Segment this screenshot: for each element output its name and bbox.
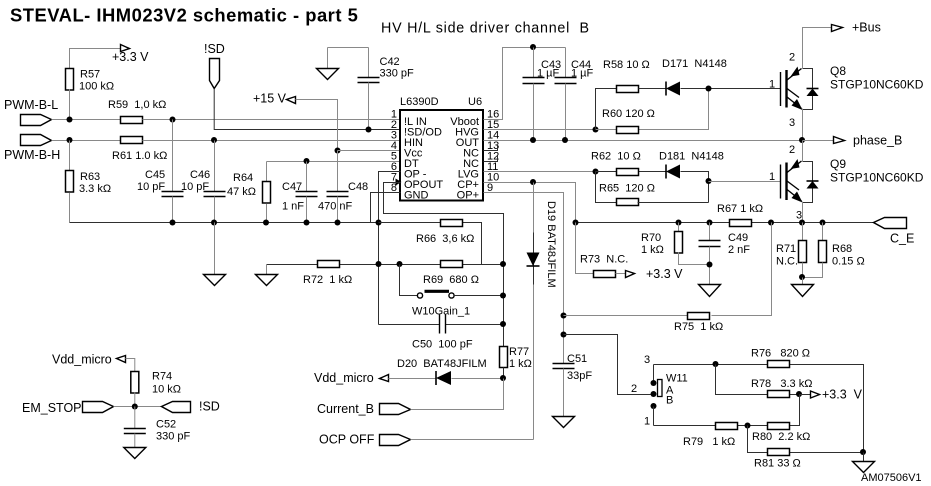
node rail C45 xyxy=(170,220,176,226)
wire R76 line xyxy=(654,365,864,453)
power +15V xyxy=(253,92,338,151)
node R76 R78 branch xyxy=(713,361,719,367)
svg-text:2 nF: 2 nF xyxy=(728,244,750,256)
wire Vcc pin4 xyxy=(338,150,401,152)
node OUT C43 xyxy=(530,137,536,143)
wire DT pin5 xyxy=(267,161,401,163)
node phase_B junction xyxy=(799,137,805,143)
svg-text:470 nF: 470 nF xyxy=(318,201,353,213)
resistor R70 xyxy=(641,223,710,265)
capacitor C45 xyxy=(137,120,184,223)
node C42/pin2 junction xyxy=(366,127,372,133)
node C45 junction xyxy=(170,117,176,123)
svg-text:U6: U6 xyxy=(468,96,482,108)
svg-text:C42: C42 xyxy=(380,56,400,68)
wire !SD to pin2 xyxy=(214,89,400,130)
ground top-center xyxy=(317,48,339,80)
ground under R72 xyxy=(256,265,278,286)
svg-text:1 µF: 1 µF xyxy=(571,68,594,80)
node rail C49 xyxy=(707,220,713,226)
capacitor C42 xyxy=(358,48,415,130)
node EM_STOP junction xyxy=(132,404,138,410)
svg-text:R64: R64 xyxy=(233,172,253,184)
svg-text:1: 1 xyxy=(769,171,775,183)
svg-text:L6390D: L6390D xyxy=(400,96,439,108)
svg-text:3.3 kΩ: 3.3 kΩ xyxy=(79,183,111,195)
node OP- rail junction xyxy=(376,220,382,226)
resistor R75 xyxy=(674,313,723,334)
wire pin10 CP+ xyxy=(484,183,576,223)
jumper W10 Gain_1 xyxy=(400,265,504,318)
svg-text:B: B xyxy=(666,395,673,407)
wire R78 line xyxy=(716,365,800,395)
svg-text:R59 1,0 kΩ: R59 1,0 kΩ xyxy=(108,99,166,111)
wire PWM-B-L to R59 xyxy=(52,119,121,121)
wire pin11 LVG xyxy=(484,171,596,173)
diode D181 N4148 xyxy=(659,151,724,179)
svg-text:+3.3 V: +3.3 V xyxy=(822,388,863,402)
resistor R72 xyxy=(303,261,352,287)
wire pin7 OPOUT route xyxy=(384,183,504,347)
node Q8 gate junction xyxy=(706,86,712,92)
svg-text:Q9: Q9 xyxy=(830,157,846,171)
capacitor C44 xyxy=(555,48,594,141)
resistor R77 xyxy=(500,346,532,379)
svg-text:2: 2 xyxy=(789,144,795,156)
resistor R58 xyxy=(603,59,650,93)
node OUT C44 xyxy=(562,137,568,143)
svg-text:C_E: C_E xyxy=(890,232,914,246)
capacitor C46 xyxy=(181,141,226,223)
connector !SD bottom xyxy=(162,400,220,414)
svg-text:1 kΩ: 1 kΩ xyxy=(509,358,532,370)
svg-text:Vdd_micro: Vdd_micro xyxy=(314,371,374,385)
svg-text:R79 1 kΩ: R79 1 kΩ xyxy=(683,436,735,448)
svg-text:PWM-B-H: PWM-B-H xyxy=(4,148,60,162)
node OP+ W11 junction xyxy=(561,332,567,338)
ground under rail xyxy=(204,223,226,286)
node C46 junction xyxy=(211,137,217,143)
svg-text:R71: R71 xyxy=(776,243,796,255)
connector Current_B xyxy=(317,379,504,417)
ground under R68 xyxy=(792,278,814,297)
node W10 branch xyxy=(397,261,403,267)
svg-text:STGP10NC60KD: STGP10NC60KD xyxy=(830,171,924,185)
node HVG branch xyxy=(593,127,599,133)
node R63 junction xyxy=(67,137,73,143)
svg-text:N.C.: N.C. xyxy=(776,256,798,268)
diode D171 N4148 xyxy=(662,58,727,96)
resistor R67 xyxy=(717,203,763,227)
svg-text:R68: R68 xyxy=(832,243,852,255)
connector OCP OFF xyxy=(319,433,534,447)
svg-text:+15 V: +15 V xyxy=(253,92,287,106)
diode Q8 copack xyxy=(803,69,819,110)
svg-text:R60 120 Ω: R60 120 Ω xyxy=(602,108,655,120)
node OP+ R75 junction xyxy=(561,313,567,319)
connector PWM-B-H xyxy=(4,135,60,163)
resistor R79 xyxy=(683,423,738,449)
resistor R76 xyxy=(751,348,810,368)
ground under C52 xyxy=(124,448,146,459)
pin 13 NC stub xyxy=(484,146,498,151)
wire D171 to Q8 gate xyxy=(681,88,781,90)
svg-text:HV H/L side driver channel B: HV H/L side driver channel B xyxy=(381,21,590,37)
svg-text:C52: C52 xyxy=(156,419,176,431)
svg-text:R67 1 kΩ: R67 1 kΩ xyxy=(717,203,763,215)
svg-text:R66 3,6 kΩ: R66 3,6 kΩ xyxy=(416,233,474,245)
wire ground to C42 xyxy=(328,47,369,49)
svg-text:C49: C49 xyxy=(728,232,748,244)
svg-text:C45: C45 xyxy=(145,169,165,181)
wire pin15 HVG xyxy=(484,129,596,131)
wire Q8 emitter to phase_B xyxy=(802,109,804,141)
resistor R61 xyxy=(112,137,167,163)
svg-text:330 pF: 330 pF xyxy=(156,431,191,443)
svg-text:1 nF: 1 nF xyxy=(282,201,304,213)
wire pin14 OUT to phase_B xyxy=(484,140,803,142)
svg-text:330 pF: 330 pF xyxy=(380,68,415,80)
svg-text:C47: C47 xyxy=(282,181,302,193)
node rail R75 xyxy=(768,220,774,226)
svg-text:STGP10NC60KD: STGP10NC60KD xyxy=(830,78,924,92)
wire R65 to riser xyxy=(638,202,709,204)
jumper W11 xyxy=(631,354,688,428)
signal Vdd_micro mid xyxy=(314,371,436,385)
wire R62 line xyxy=(596,171,667,173)
svg-text:D19 BAT48JFILM: D19 BAT48JFILM xyxy=(545,201,557,288)
svg-text:3: 3 xyxy=(644,354,650,366)
resistor R64 xyxy=(227,162,271,223)
svg-text:Current_B: Current_B xyxy=(317,402,374,416)
wire Q9 gate xyxy=(709,181,781,183)
wire pin8 GND xyxy=(371,193,401,223)
node R57/PWM-B-L junction xyxy=(67,117,73,123)
node CP+ D19 xyxy=(530,179,536,185)
capacitor C47 xyxy=(282,158,318,223)
wire R75 line xyxy=(564,223,772,316)
node rail R68 xyxy=(820,220,826,226)
capacitor C50 xyxy=(379,315,504,351)
resistor R57 xyxy=(66,69,115,120)
node R69 right junction xyxy=(500,261,506,267)
connector C_E xyxy=(874,218,915,246)
signal !SD symbol xyxy=(204,42,225,89)
wire pin16 Vboot xyxy=(484,48,566,120)
node R78 R80 junction xyxy=(796,391,802,397)
wire phase_B xyxy=(803,140,834,142)
svg-text:R69 680 Ω: R69 680 Ω xyxy=(423,274,479,286)
svg-text:R76 820 Ω: R76 820 Ω xyxy=(751,348,810,360)
svg-text:R81 33 Ω: R81 33 Ω xyxy=(754,458,801,470)
ground under C49 xyxy=(699,285,721,297)
wire ground rail xyxy=(70,222,379,224)
svg-text:Q8: Q8 xyxy=(830,64,846,78)
resistor R69 xyxy=(423,261,479,287)
capacitor C52 xyxy=(124,407,191,448)
svg-text:R70: R70 xyxy=(641,232,661,244)
svg-text:C51: C51 xyxy=(567,353,587,365)
svg-text:GND: GND xyxy=(404,190,429,202)
wire Q9 collector xyxy=(802,141,804,162)
svg-text:R75 1 kΩ: R75 1 kΩ xyxy=(674,321,723,333)
node Q9 gate junction xyxy=(706,178,712,184)
signal phase_B xyxy=(834,134,903,148)
node rail CP+ xyxy=(573,220,579,226)
svg-text:R74: R74 xyxy=(152,371,172,383)
svg-text:STEVAL- IHM023V2 schematic - p: STEVAL- IHM023V2 schematic - part 5 xyxy=(10,5,358,26)
svg-text:OP+: OP+ xyxy=(457,190,479,202)
svg-text:1: 1 xyxy=(769,79,775,91)
wire pin6 OP- xyxy=(379,172,401,325)
svg-text:W10Gain_1: W10Gain_1 xyxy=(412,306,470,318)
svg-text:R77: R77 xyxy=(509,346,529,358)
svg-text:!SD: !SD xyxy=(199,400,220,414)
capacitor C51 xyxy=(553,353,593,417)
capacitor C43 xyxy=(523,48,562,141)
transistor Q9 STGP10NC60KD xyxy=(769,144,924,222)
node LVG branch xyxy=(593,169,599,175)
wire R79 line xyxy=(654,395,800,426)
node rail C48 xyxy=(335,220,341,226)
resistor R68 xyxy=(803,223,865,278)
power +3.3V top-left xyxy=(70,45,150,69)
wire R72 R69 line xyxy=(267,264,504,266)
svg-text:1: 1 xyxy=(644,416,650,428)
resistor R80 xyxy=(752,423,810,444)
resistor R63 xyxy=(66,141,112,223)
capacitor C49 xyxy=(699,223,751,285)
svg-text:R73 N.C.: R73 N.C. xyxy=(580,254,628,266)
svg-text:!SD: !SD xyxy=(204,42,225,56)
svg-text:C48: C48 xyxy=(348,181,368,193)
node rail C46 xyxy=(211,220,217,226)
transistor Q8 STGP10NC60KD xyxy=(769,52,924,130)
resistor R65 xyxy=(599,183,655,206)
node R71 R68 junction xyxy=(799,274,805,280)
diode Q9 copack xyxy=(803,162,819,203)
svg-text:R62 10 Ω: R62 10 Ω xyxy=(591,151,641,163)
svg-text:10 pF: 10 pF xyxy=(137,181,165,193)
power +Bus xyxy=(832,21,881,35)
svg-text:PWM-B-L: PWM-B-L xyxy=(4,98,58,112)
node rail R70 xyxy=(676,220,682,226)
capacitor C48 xyxy=(318,151,368,223)
wire PWM-B-H to R61 xyxy=(52,140,121,142)
wire R61 to pin3 xyxy=(143,140,401,142)
svg-text:OCP OFF: OCP OFF xyxy=(319,433,375,447)
svg-text:3: 3 xyxy=(789,117,795,129)
resistor R73 N.C. xyxy=(576,223,684,282)
resistor R60 xyxy=(602,108,655,134)
node rail C47 xyxy=(304,220,310,226)
node C50 right junction xyxy=(500,321,506,327)
svg-text:AM07506V1: AM07506V1 xyxy=(861,472,922,484)
svg-text:0.15 Ω: 0.15 Ω xyxy=(832,256,865,268)
resistor R81 xyxy=(754,449,801,470)
svg-text:+3.3 V: +3.3 V xyxy=(646,267,683,281)
wire emitter rail C_E xyxy=(576,222,874,224)
wire pin9 OP+ xyxy=(484,193,564,364)
svg-text:2: 2 xyxy=(631,383,637,395)
svg-text:R58 10 Ω: R58 10 Ω xyxy=(603,59,650,71)
resistor R66 xyxy=(416,220,474,246)
svg-text:33pF: 33pF xyxy=(567,370,592,382)
wire R65 branch xyxy=(596,172,617,203)
svg-text:D181 N4148: D181 N4148 xyxy=(659,151,724,163)
svg-text:100 kΩ: 100 kΩ xyxy=(79,81,114,93)
svg-text:D20 BAT48JFILM: D20 BAT48JFILM xyxy=(397,358,487,370)
svg-text:R65 120 Ω: R65 120 Ω xyxy=(599,183,655,195)
svg-text:+3.3 V: +3.3 V xyxy=(112,50,149,64)
svg-text:R61 1.0 kΩ: R61 1.0 kΩ xyxy=(112,150,167,162)
node rail R64 xyxy=(263,220,269,226)
svg-text:C50 100 pF: C50 100 pF xyxy=(412,339,473,351)
wire R58 branch riser xyxy=(596,89,617,130)
resistor R62 xyxy=(591,151,641,176)
node W10 right junction xyxy=(500,293,506,299)
connector EM_STOP xyxy=(22,401,162,415)
svg-text:EM_STOP: EM_STOP xyxy=(22,401,82,415)
svg-text:R57: R57 xyxy=(80,69,100,81)
node D20 R77 junction xyxy=(500,375,506,381)
wire D181 to Q9 gate riser xyxy=(681,172,709,203)
connector PWM-B-L xyxy=(4,98,58,126)
wire R59 to pin1 xyxy=(143,119,401,121)
power +3.3V bottom xyxy=(800,388,863,402)
svg-text:R80 2.2 kΩ: R80 2.2 kΩ xyxy=(752,431,810,443)
node OP- on R72 line xyxy=(376,261,382,267)
svg-text:10 pF: 10 pF xyxy=(181,181,209,193)
resistor R74 xyxy=(131,371,181,407)
node R79 R81 junction xyxy=(745,423,751,429)
resistor R78 xyxy=(751,378,812,398)
resistor R71 N.C. xyxy=(776,223,807,278)
svg-text:Vdd_micro: Vdd_micro xyxy=(52,353,112,367)
wire Q8 collector to +Bus xyxy=(803,28,832,69)
wire R66 line xyxy=(379,223,482,265)
wire W11 pin2 route xyxy=(564,335,651,395)
wire R81 line xyxy=(748,426,864,453)
ground bottom right xyxy=(853,453,875,473)
wire R58 to D171 xyxy=(639,88,667,90)
wire R60 line xyxy=(596,89,709,130)
pin 12 NC stub xyxy=(484,156,498,162)
node Vcc junction xyxy=(335,148,341,154)
svg-text:R78 3.3 kΩ: R78 3.3 kΩ xyxy=(751,378,812,390)
svg-text:+Bus: +Bus xyxy=(852,21,881,35)
node rail Q9 emitter xyxy=(799,220,805,226)
pin 7 arrowhead marker xyxy=(396,179,402,186)
svg-text:R63: R63 xyxy=(80,171,100,183)
diode D20 BAT48JFILM xyxy=(397,358,504,385)
wire Q9 emitter to rail xyxy=(802,202,804,223)
resistor R59 xyxy=(108,99,166,124)
diode D19 BAT48JFILM xyxy=(527,183,558,440)
svg-text:10 kΩ: 10 kΩ xyxy=(152,384,181,396)
node C43 top xyxy=(530,44,536,50)
svg-text:47 kΩ: 47 kΩ xyxy=(227,186,256,198)
op-amp driver IC U6 L6390D xyxy=(400,96,483,202)
svg-text:2: 2 xyxy=(789,52,795,64)
signal Vdd_micro left xyxy=(52,353,135,372)
svg-text:W11: W11 xyxy=(666,373,688,385)
svg-text:1 kΩ: 1 kΩ xyxy=(641,244,664,256)
svg-text:phase_B: phase_B xyxy=(853,134,902,148)
ground under C51 xyxy=(553,417,575,428)
svg-text:C46: C46 xyxy=(190,169,210,181)
svg-text:R72 1 kΩ: R72 1 kΩ xyxy=(303,274,352,286)
node R81 right junction xyxy=(860,449,866,455)
svg-text:D171 N4148: D171 N4148 xyxy=(662,58,727,70)
